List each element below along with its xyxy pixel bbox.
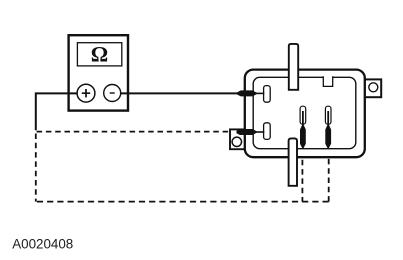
connector left mounting ear — [230, 129, 245, 149]
pin slot upper-left — [264, 86, 271, 103]
meter negative probe terminal — [104, 85, 121, 102]
meter positive probe terminal — [77, 84, 95, 102]
wire — [112, 92, 238, 94]
probe arrow into upper-left pin — [237, 90, 264, 96]
wire — [35, 134, 37, 202]
connector top locking tab — [289, 44, 298, 90]
wire — [37, 131, 237, 133]
svg-text:Ω: Ω — [91, 43, 108, 67]
wire — [37, 201, 329, 203]
pin slot lower-left — [264, 123, 271, 140]
pin slot center-right — [325, 106, 331, 124]
connector inner face — [253, 77, 356, 148]
probe arrow into lower-left pin — [237, 129, 265, 135]
connector right mounting ear — [363, 79, 381, 97]
wire — [36, 93, 86, 130]
connector index notch — [323, 76, 332, 86]
wire — [301, 151, 303, 202]
wire — [328, 151, 330, 202]
pin slot center-left — [300, 106, 306, 124]
probe arrow into center-right pin — [325, 111, 331, 149]
svg-text:A0020408: A0020408 — [12, 237, 73, 252]
connector J1 outer body — [245, 70, 365, 158]
connector bottom locking tab — [289, 138, 297, 185]
probe arrow into center-left pin — [300, 111, 306, 149]
ohmmeter U1 — [69, 35, 128, 110]
